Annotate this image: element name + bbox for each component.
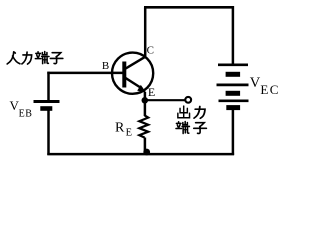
- svg-text:R: R: [115, 120, 125, 135]
- wire top rail: [144, 6, 234, 9]
- svg-text:E: E: [126, 128, 132, 139]
- resistor RE zigzag: [139, 116, 148, 138]
- svg-text:B: B: [102, 60, 109, 72]
- svg-text:V: V: [250, 75, 261, 91]
- wire top rail to battery VEC: [232, 6, 235, 65]
- wire resistor RE to bottom rail: [144, 138, 147, 155]
- label RE: [115, 120, 132, 138]
- wire node E to output terminal: [145, 99, 185, 101]
- junction RE bottom rail: [143, 149, 150, 156]
- svg-text:E: E: [148, 85, 155, 99]
- battery VEC plate short 3: [226, 105, 240, 110]
- label VEC: [250, 75, 280, 97]
- transistor Q1 collector stroke: [125, 57, 145, 69]
- output terminal open circle: [185, 97, 191, 103]
- label VEB: [10, 98, 33, 119]
- battery VEC plate long 1: [218, 63, 248, 66]
- wire battery VEC to bottom rail: [232, 110, 235, 156]
- svg-text:EB: EB: [19, 108, 33, 119]
- wire bottom rail to battery VEB: [47, 110, 50, 155]
- wire bottom rail: [47, 153, 234, 156]
- transistor Q1 emitter stroke: [125, 78, 142, 89]
- transistor Q1 emitter arrow: [137, 85, 146, 93]
- wire input node to base: [47, 72, 124, 75]
- wire battery VEB to input node: [47, 72, 50, 101]
- battery VEC plate short 1: [226, 72, 241, 77]
- battery VEC plate long 2: [217, 84, 249, 87]
- battery VEC plate long 3: [219, 99, 249, 102]
- svg-text:C: C: [147, 44, 154, 56]
- wire node E to resistor RE: [144, 100, 147, 116]
- wire collector to top rail: [144, 7, 147, 57]
- label input terminal 入力端子: [7, 51, 63, 64]
- node E junction dot: [142, 97, 149, 104]
- label output terminal 端子: [176, 121, 206, 133]
- svg-text:EC: EC: [260, 82, 279, 97]
- battery VEB plate short (minus): [40, 106, 52, 111]
- wire emitter down to node E: [144, 92, 147, 102]
- transistor Q1 base bar: [122, 62, 126, 88]
- battery VEB plate long (plus): [34, 100, 60, 103]
- battery VEC plate short 2: [226, 91, 241, 96]
- label output terminal 出力: [178, 106, 205, 118]
- transistor Q1 body circle: [112, 53, 153, 94]
